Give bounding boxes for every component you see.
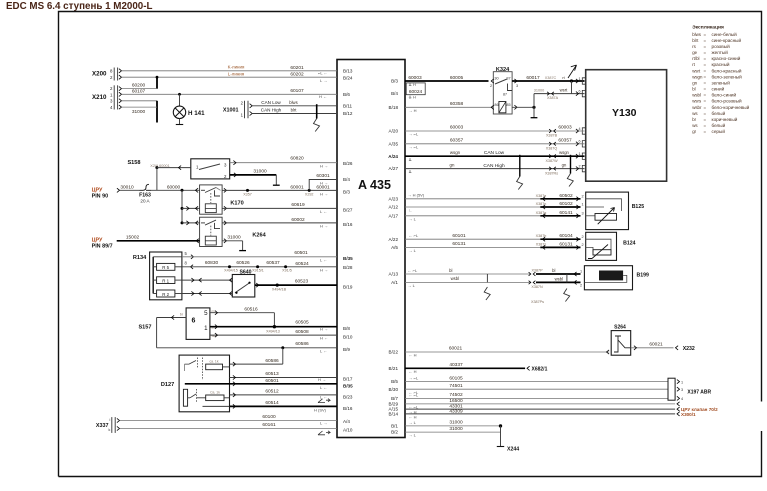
- svg-text:3: 3: [582, 211, 584, 215]
- svg-text:31000: 31000: [132, 109, 146, 115]
- svg-text:H →: H →: [320, 267, 328, 272]
- svg-text:30: 30: [494, 76, 498, 80]
- svg-text:blrt: blrt: [291, 108, 298, 113]
- svg-text:→ L: → L: [409, 216, 417, 221]
- svg-text:bl: bl: [692, 87, 695, 92]
- wire B/22 60021 to S264: [405, 351, 609, 353]
- svg-text:A/10: A/10: [343, 428, 353, 433]
- svg-text:60537: 60537: [266, 260, 280, 266]
- wire A/13 bl to B199: [405, 273, 530, 275]
- svg-text:1: 1: [580, 270, 582, 274]
- svg-text:X494/15: X494/15: [224, 269, 238, 273]
- svg-text:розовый: розовый: [712, 43, 731, 49]
- wire S158-2 31000 to ground: [230, 174, 277, 176]
- svg-text:60002: 60002: [291, 217, 305, 223]
- wire K170 coil out 60619 to B/27: [224, 206, 227, 210]
- svg-text:60501: 60501: [265, 378, 279, 384]
- svg-text:B/30: B/30: [389, 387, 399, 392]
- svg-text:blrt: blrt: [692, 38, 699, 43]
- wire D127 60513 to B/17: [230, 377, 338, 379]
- svg-text:60003: 60003: [558, 125, 572, 131]
- svg-text:=: =: [704, 105, 707, 110]
- svg-text:60101: 60101: [452, 233, 466, 239]
- wire X210-3: [122, 100, 158, 102]
- svg-text:60201: 60201: [290, 65, 304, 71]
- svg-text:Y130: Y130: [612, 107, 637, 119]
- svg-text:blws: blws: [692, 32, 702, 37]
- svg-text:→ H: → H: [409, 108, 417, 113]
- svg-text:A/4: A/4: [343, 419, 350, 424]
- svg-text:2: 2: [582, 243, 584, 247]
- wire S158 feed: [155, 166, 158, 169]
- svg-text:=: =: [704, 50, 707, 55]
- wire B/29 16500: [405, 403, 675, 405]
- node X244 ground: [499, 424, 502, 427]
- svg-text:X357: X357: [243, 192, 252, 196]
- svg-text:B/3: B/3: [343, 189, 350, 194]
- resistor in D127 top ca.1k: [206, 364, 223, 370]
- wire A/22 60101 to B124: [405, 238, 540, 240]
- svg-text:bl: bl: [449, 268, 452, 273]
- svg-text:1: 1: [204, 325, 208, 332]
- svg-text:ca. 1k: ca. 1k: [209, 360, 218, 364]
- twisted pair marker at Y130: [570, 155, 572, 174]
- svg-text:60104: 60104: [559, 233, 573, 239]
- svg-text:31000: 31000: [227, 235, 241, 241]
- svg-text:B/26: B/26: [343, 161, 353, 166]
- wire wsrt to Y130 pin6: [571, 81, 573, 94]
- svg-text:B/35: B/35: [343, 383, 353, 388]
- svg-text:B/8: B/8: [343, 326, 350, 331]
- svg-text:B/1: B/1: [391, 424, 398, 429]
- svg-text:L →: L →: [320, 421, 327, 426]
- svg-text:B124: B124: [623, 240, 636, 246]
- svg-text:X300/1: X300/1: [681, 412, 696, 417]
- svg-text:L-линия: L-линия: [228, 71, 245, 76]
- svg-text:K264: K264: [252, 233, 266, 239]
- svg-text:60141: 60141: [559, 210, 573, 216]
- sensor B199 glow module: [584, 266, 632, 290]
- svg-text:87: 87: [503, 92, 507, 96]
- svg-text:60830: 60830: [205, 260, 219, 266]
- svg-text:S157: S157: [138, 324, 151, 330]
- svg-text:60502: 60502: [559, 193, 573, 199]
- svg-text:PIN 89/7: PIN 89/7: [92, 244, 113, 250]
- svg-text:B/3: B/3: [391, 79, 398, 84]
- svg-text:B/4: B/4: [343, 177, 350, 182]
- svg-text:6: 6: [579, 140, 581, 144]
- svg-text:A/17: A/17: [389, 213, 399, 218]
- wire 60000 to K170/K264: [151, 189, 200, 191]
- svg-text:зеленый: зеленый: [712, 79, 731, 85]
- svg-text:60131: 60131: [452, 241, 466, 247]
- svg-text:← ⌐L: ← ⌐L: [408, 268, 418, 273]
- svg-text:B/27: B/27: [343, 208, 353, 213]
- svg-text:gn: gn: [692, 80, 697, 85]
- svg-text:красный: красный: [712, 61, 730, 67]
- svg-text:Ca. 1k: Ca. 1k: [210, 391, 220, 395]
- svg-text:A/23: A/23: [389, 196, 399, 201]
- svg-text:rt/bl: rt/bl: [692, 56, 699, 61]
- svg-text:бело-зеленый: бело-зеленый: [712, 73, 743, 79]
- svg-text:60021: 60021: [449, 345, 463, 351]
- wire A/27 CAN High gn to Y130: [405, 168, 585, 170]
- svg-text:B/4: B/4: [391, 91, 398, 96]
- svg-text:60105: 60105: [449, 375, 463, 381]
- potentiometer in B125: [595, 214, 617, 221]
- svg-text:60513: 60513: [265, 371, 279, 377]
- svg-text:H ←: H ←: [320, 336, 328, 341]
- svg-text:A/20: A/20: [389, 129, 399, 134]
- svg-text:белый: белый: [712, 110, 726, 116]
- wire R134-R2 to S640: [182, 293, 232, 295]
- wire B/5 60105 to X197-1: [405, 381, 668, 383]
- svg-text:60017: 60017: [526, 75, 540, 81]
- svg-text:X387Rs: X387Rs: [545, 171, 558, 175]
- svg-text:74501: 74501: [449, 383, 463, 389]
- svg-text:B/6: B/6: [343, 92, 350, 97]
- svg-text:60501: 60501: [294, 250, 308, 256]
- svg-text:H ←: H ←: [319, 94, 327, 99]
- svg-text:B199: B199: [637, 272, 650, 278]
- svg-text:X292: X292: [305, 192, 314, 196]
- wire K264 contact out 60002 to B/16: [224, 221, 227, 225]
- svg-text:=: =: [704, 93, 707, 98]
- svg-text:B/9: B/9: [343, 347, 350, 352]
- svg-text:L ←: L ←: [320, 349, 327, 354]
- svg-text:F163: F163: [139, 192, 151, 198]
- ECU A435 box: [337, 60, 405, 438]
- wire B/3 bold 60003/60005 to K324: [405, 80, 489, 82]
- svg-text:60102: 60102: [559, 201, 573, 207]
- resistor R5: [157, 263, 175, 270]
- svg-text:D127: D127: [161, 382, 174, 388]
- wire D127 60501 bold to B/35: [233, 382, 236, 386]
- svg-text:2: 2: [579, 164, 581, 168]
- svg-text:B/7: B/7: [391, 396, 398, 401]
- svg-text:15002: 15002: [126, 235, 140, 241]
- svg-text:30010: 30010: [120, 184, 134, 190]
- svg-text:CAN Low: CAN Low: [484, 150, 505, 156]
- svg-text:→ ⌐L: → ⌐L: [409, 144, 419, 149]
- resistor in D127 vertical: [183, 389, 187, 406]
- svg-text:=: =: [704, 32, 707, 37]
- wire D127 60586 up to B/9 node: [230, 363, 283, 365]
- svg-text:A/35: A/35: [389, 141, 399, 146]
- junction bar X200 splice: [156, 76, 159, 79]
- wire S157-5 60516: [210, 312, 275, 314]
- wire B/18 60358 through K324 coil: [405, 106, 493, 108]
- twisted pair marker CAN right: [519, 155, 521, 177]
- svg-text:→ H (5V): → H (5V): [408, 193, 425, 198]
- svg-text:ws: ws: [692, 123, 698, 128]
- svg-text:A/5: A/5: [391, 245, 398, 250]
- svg-text:B/11: B/11: [343, 103, 353, 108]
- svg-text:60100: 60100: [262, 414, 276, 420]
- svg-text:B/2: B/2: [391, 430, 398, 435]
- svg-text:B/5: B/5: [391, 379, 398, 384]
- svg-text:← H: ← H: [409, 415, 417, 420]
- svg-text:CAN Low: CAN Low: [261, 100, 281, 105]
- svg-text:86: 86: [494, 103, 498, 107]
- wire A/23 60502 to B125: [405, 198, 540, 200]
- svg-text:синий: синий: [712, 86, 725, 92]
- wire X210-2 60200: [122, 88, 158, 90]
- svg-text:60820: 60820: [290, 156, 304, 162]
- wire D127 60512 to B/23: [230, 394, 338, 396]
- wire X337 60161 to A/10: [120, 428, 338, 430]
- svg-text:A/22: A/22: [389, 237, 399, 242]
- svg-text:31000: 31000: [253, 168, 267, 174]
- wire branch to B/4 60301: [309, 180, 337, 191]
- svg-text:сине-белый: сине-белый: [712, 31, 738, 37]
- svg-text:бело-синий: бело-синий: [712, 92, 737, 98]
- wire X210-1 60107 to B/6: [122, 93, 338, 95]
- wire X337 60100 to A/4: [120, 420, 338, 422]
- svg-text:→ ⌐L: → ⌐L: [409, 132, 419, 137]
- wire CAN Low X1001 to B/11: [252, 105, 337, 107]
- svg-text:60523: 60523: [295, 279, 309, 285]
- svg-text:B/23: B/23: [343, 395, 353, 400]
- fuse F163 20A: [140, 184, 152, 190]
- svg-text:wsrt: wsrt: [560, 88, 569, 93]
- svg-text:L ←: L ←: [320, 257, 327, 262]
- svg-text:wsgn: wsgn: [692, 74, 703, 79]
- svg-text:blws: blws: [289, 100, 297, 105]
- wire B/1 31000: [405, 425, 501, 427]
- svg-text:60107: 60107: [290, 88, 304, 94]
- svg-text:2: 2: [490, 84, 492, 88]
- svg-text:6: 6: [579, 89, 581, 93]
- wire A/15 43301 to CRU klapan: [405, 408, 675, 410]
- svg-text:60131: 60131: [559, 241, 573, 247]
- svg-text:31000: 31000: [534, 89, 545, 93]
- wire S157-1 60505 bold to B/8: [210, 326, 337, 328]
- svg-text:60161: 60161: [262, 422, 276, 428]
- actuator Y130 box: [586, 70, 667, 182]
- lamp H141: [178, 93, 181, 96]
- svg-text:B/24: B/24: [343, 76, 353, 81]
- relay K170: [200, 185, 223, 214]
- svg-text:=: =: [704, 87, 707, 92]
- svg-text:60586: 60586: [295, 341, 309, 347]
- svg-text:wsgn: wsgn: [559, 150, 569, 155]
- svg-text:k: k: [109, 428, 111, 432]
- svg-text:wsrt: wsrt: [692, 68, 701, 73]
- svg-text:X91/5: X91/5: [282, 269, 292, 273]
- bold bus in D127 60501: [185, 383, 337, 385]
- junction bar X210 splice: [156, 101, 158, 123]
- svg-text:R 5: R 5: [162, 265, 169, 270]
- svg-text:L ←: L ←: [320, 385, 327, 390]
- svg-text:gr: gr: [692, 129, 696, 134]
- svg-text:X387Ps: X387Ps: [531, 300, 544, 304]
- wire K264 coil 31000 to ground: [224, 239, 227, 243]
- svg-text:A/27: A/27: [389, 166, 399, 171]
- feed bus to relay rows: [181, 190, 183, 223]
- svg-text:X387N: X387N: [531, 285, 543, 289]
- svg-text:60001: 60001: [290, 184, 304, 190]
- svg-text:=: =: [704, 80, 707, 85]
- svg-text:R 1: R 1: [162, 279, 169, 284]
- svg-text:→ L: → L: [408, 283, 416, 288]
- svg-text:wsrs: wsrs: [692, 99, 702, 104]
- sensor B124 temperature: [586, 232, 617, 260]
- svg-text:бело-розовый: бело-розовый: [712, 98, 742, 104]
- svg-text:X387C: X387C: [545, 76, 557, 80]
- svg-text:S264: S264: [614, 325, 626, 331]
- svg-text:16500: 16500: [449, 398, 463, 404]
- relay K264: [200, 217, 223, 246]
- svg-text:сине-красный: сине-красный: [712, 37, 742, 43]
- svg-text:H →: H →: [320, 163, 328, 168]
- wire S157 60508 to B/10: [210, 334, 337, 336]
- svg-text:H →: H →: [320, 180, 328, 185]
- svg-text:wsbl: wsbl: [451, 276, 459, 281]
- svg-text:=: =: [704, 74, 707, 79]
- svg-text:белый: белый: [712, 122, 726, 128]
- svg-text:31000: 31000: [449, 426, 463, 432]
- svg-text:20 A: 20 A: [140, 199, 150, 204]
- wire 60017 bold to Y130 pin1: [512, 80, 584, 82]
- svg-text:X1001: X1001: [223, 107, 239, 113]
- svg-text:43309: 43309: [449, 409, 463, 415]
- svg-text:2: 2: [582, 235, 584, 239]
- wire D127 60514 bold to B/16: [230, 405, 338, 407]
- svg-text:31000: 31000: [449, 420, 463, 426]
- wire S640 out 60523 bold to B/19: [256, 283, 259, 287]
- svg-text:H →: H →: [318, 377, 326, 382]
- svg-text:B/13: B/13: [343, 68, 353, 73]
- wire B/14 43309 to X300/1: [405, 413, 675, 415]
- svg-text:2: 2: [582, 194, 584, 198]
- svg-text:85: 85: [506, 103, 510, 107]
- wire 30010 from CRU PIN90: [117, 188, 120, 192]
- svg-text:A/24: A/24: [388, 154, 398, 159]
- svg-text:X387W: X387W: [545, 159, 558, 163]
- svg-text:X494/13: X494/13: [266, 329, 280, 333]
- svg-text:=: =: [704, 38, 707, 43]
- svg-text:X915/1: X915/1: [252, 269, 264, 273]
- svg-text:60003: 60003: [450, 125, 464, 131]
- wire A/17 60141 to B125: [405, 215, 540, 217]
- svg-text:X387Q: X387Q: [546, 146, 558, 150]
- svg-text:60514: 60514: [265, 400, 279, 406]
- svg-text:=: =: [704, 117, 707, 122]
- svg-text:X494/1B: X494/1B: [272, 287, 287, 291]
- svg-text:A/12: A/12: [389, 205, 399, 210]
- svg-text:6: 6: [192, 317, 196, 324]
- svg-text:PIN 90: PIN 90: [92, 193, 108, 199]
- svg-text:gn: gn: [562, 162, 567, 167]
- svg-text:ge: ge: [692, 50, 697, 55]
- wire A/24 CAN Low bold wsgn to Y130: [405, 155, 585, 157]
- svg-text:коричневый: коричневый: [712, 116, 738, 122]
- svg-text:S158: S158: [127, 160, 140, 166]
- svg-text:K170: K170: [230, 200, 243, 206]
- svg-text:EDC MS 6.4 ступень 1 M2000-L: EDC MS 6.4 ступень 1 M2000-L: [6, 1, 153, 12]
- svg-text:60005: 60005: [450, 75, 464, 81]
- svg-text:→ L: → L: [409, 248, 417, 253]
- svg-text:A/13: A/13: [389, 272, 399, 277]
- svg-text:⌐L ←: ⌐L ←: [318, 71, 328, 76]
- svg-text:X200: X200: [92, 71, 107, 78]
- wire X210-4 31000: [122, 106, 158, 108]
- svg-text:wsbr: wsbr: [692, 105, 702, 110]
- wire K170 contact out 60001 to B/3: [224, 188, 227, 192]
- svg-text:R 2: R 2: [162, 292, 169, 297]
- svg-text:X210: X210: [92, 94, 107, 101]
- svg-text:1: 1: [582, 203, 584, 207]
- svg-text:60000: 60000: [167, 184, 181, 190]
- wire A/20 60003 to Y130: [405, 130, 585, 132]
- svg-text:H →: H →: [320, 223, 328, 228]
- svg-text:60358: 60358: [450, 101, 464, 107]
- svg-text:60357: 60357: [558, 138, 572, 144]
- svg-text:⇊ H: ⇊ H: [409, 95, 416, 100]
- svg-text:bl: bl: [552, 268, 555, 273]
- svg-text:=: =: [704, 44, 707, 49]
- svg-text:B/16: B/16: [343, 222, 353, 227]
- svg-text:60357: 60357: [450, 138, 464, 144]
- thermistor in B124: [593, 250, 611, 255]
- svg-text:=: =: [704, 99, 707, 104]
- svg-text:60619: 60619: [291, 202, 305, 208]
- svg-text:X387A: X387A: [547, 96, 559, 100]
- svg-text:wsbl: wsbl: [555, 276, 563, 281]
- svg-text:X197 ABR: X197 ABR: [687, 389, 711, 395]
- connector X197 ABR: [668, 378, 675, 400]
- svg-text:1: 1: [579, 77, 581, 81]
- resistor R2: [157, 290, 175, 297]
- svg-text:A 435: A 435: [358, 178, 391, 192]
- svg-text:X337: X337: [96, 423, 109, 429]
- wire B/30 74501 to X197-3: [405, 388, 668, 390]
- svg-text:X244: X244: [507, 447, 519, 453]
- svg-text:L ←: L ←: [320, 394, 327, 399]
- svg-text:CAN High: CAN High: [483, 163, 505, 169]
- svg-text:60516: 60516: [244, 306, 258, 312]
- svg-text:B/35: B/35: [343, 256, 353, 261]
- svg-text:B/19: B/19: [343, 284, 353, 289]
- svg-text:B/28: B/28: [343, 265, 353, 270]
- svg-text:60021: 60021: [649, 341, 663, 347]
- svg-text:60107: 60107: [132, 89, 146, 95]
- svg-text:K-линия: K-линия: [228, 65, 245, 70]
- wire A/5 60131 to B124: [405, 246, 540, 248]
- svg-text:B/16: B/16: [343, 406, 353, 411]
- svg-text:=: =: [704, 62, 707, 67]
- svg-text:X232: X232: [683, 346, 695, 352]
- svg-text:Экспликация: Экспликация: [692, 25, 724, 31]
- svg-text:X387P: X387P: [531, 269, 543, 273]
- svg-text:← H: ← H: [409, 353, 417, 358]
- svg-text:3: 3: [681, 388, 683, 392]
- svg-text:4: 4: [681, 397, 683, 401]
- svg-text:74502: 74502: [449, 392, 463, 398]
- wire A/12 60102 to B125: [405, 206, 540, 208]
- svg-text:60202: 60202: [290, 72, 304, 78]
- svg-text:H →: H →: [320, 326, 328, 331]
- svg-text:← ⌐L: ← ⌐L: [409, 392, 419, 397]
- svg-text:→ ⌐L: → ⌐L: [409, 376, 419, 381]
- svg-text:60526: 60526: [236, 260, 250, 266]
- svg-text:gn: gn: [450, 162, 455, 167]
- wire R134-R1 to S640: [182, 279, 232, 281]
- svg-text:=: =: [704, 111, 707, 116]
- svg-text:красно-синий: красно-синий: [712, 55, 741, 61]
- svg-text:H (SV): H (SV): [314, 408, 327, 413]
